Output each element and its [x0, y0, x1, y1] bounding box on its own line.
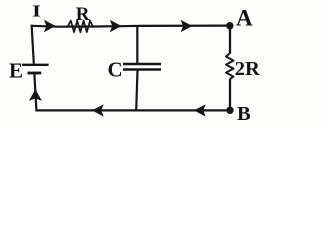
arrow right on top wire (before R) [44, 20, 56, 32]
capacitor branch lower wire [136, 70, 137, 111]
arrow right on top wire (after R) [110, 20, 122, 32]
capacitor C top plate [123, 63, 161, 65]
svg-text:I: I [32, 2, 41, 21]
wire bottom horizontal [37, 109, 231, 111]
battery E top plate [22, 64, 49, 66]
arrow up on left wire [29, 89, 42, 101]
resistor R zigzag [66, 21, 95, 33]
svg-text:2R: 2R [235, 58, 260, 80]
arrow left on bottom wire (middle) [92, 104, 104, 116]
svg-text:R: R [76, 4, 90, 25]
svg-text:A: A [236, 6, 253, 31]
svg-text:B: B [237, 103, 251, 125]
arrow left on bottom wire (right) [194, 104, 206, 116]
wire top horizontal [32, 26, 231, 27]
wire right vertical upper (A to 2R) [229, 26, 231, 54]
wire left vertical upper (to battery) [32, 25, 34, 64]
arrow right on top wire (before A) [181, 20, 193, 32]
node B dot [226, 107, 233, 114]
resistor 2R zigzag [226, 53, 234, 79]
capacitor C bottom plate [123, 68, 161, 70]
wire right vertical lower (2R to B) [229, 79, 231, 111]
svg-text:C: C [108, 57, 123, 81]
svg-text:E: E [9, 58, 23, 82]
battery E bottom plate [28, 72, 42, 75]
capacitor branch upper wire [136, 26, 138, 64]
wire left vertical lower (battery to bottom) [34, 73, 36, 111]
node A dot [226, 22, 233, 29]
